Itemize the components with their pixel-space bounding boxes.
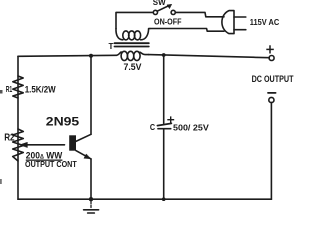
node junction (capacitor bottom) [162, 197, 166, 201]
wire switch to plug (top) [175, 12, 224, 16]
output terminal + (circle) [269, 56, 274, 61]
scan speck left edge lower [0, 179, 2, 184]
capacitor + polarity sign [167, 116, 174, 123]
transformer T secondary winding (7.5V) [117, 51, 149, 60]
scan speck left edge [0, 90, 3, 94]
node junction (emitter / ground) [89, 197, 93, 201]
output + polarity sign [266, 45, 274, 53]
svg-text:T: T [109, 42, 114, 51]
wire bottom rail [18, 198, 271, 200]
svg-text:115V AC: 115V AC [250, 17, 279, 27]
svg-text:DC OUTPUT: DC OUTPUT [252, 74, 294, 84]
minus sign above - terminal [268, 92, 276, 94]
underline under 200 ohm WW [26, 160, 63, 161]
transformer T primary winding [116, 29, 150, 40]
node junction (collector riser tap) [89, 54, 93, 58]
wire primary-left riser to switch [116, 12, 153, 28]
wire transformer primary-right to plug (bottom) [150, 29, 224, 32]
node junction (capacitor tap) [162, 53, 166, 57]
switch SW [153, 4, 175, 14]
transformer T core [115, 43, 149, 46]
transistor Q1 emitter lead with arrow [76, 151, 91, 159]
svg-text:1.5K/2W: 1.5K/2W [25, 84, 56, 95]
potentiometer R2 wiper arrow [20, 142, 65, 147]
svg-text:2N95: 2N95 [46, 114, 80, 128]
potentiometer R2 [13, 129, 24, 161]
svg-text:ON-OFF: ON-OFF [154, 18, 182, 27]
wire left rail [17, 56, 19, 199]
svg-text:R1: R1 [6, 85, 13, 94]
wire - terminal to bottom rail [270, 103, 272, 200]
resistor R1 [13, 76, 23, 98]
plug P1 (115V AC wall plug) [222, 11, 246, 34]
wire secondary-right to + output terminal [149, 55, 270, 58]
ground symbol [84, 202, 99, 214]
svg-text:SW: SW [153, 0, 166, 7]
svg-text:500/ 25V: 500/ 25V [173, 122, 209, 132]
capacitor C plates [157, 123, 171, 128]
wire emitter to bottom rail [90, 159, 92, 199]
wire collector riser [90, 56, 92, 135]
transistor Q1 2N95 base bar [69, 135, 76, 150]
svg-text:200Δ WW: 200Δ WW [26, 150, 63, 161]
wire capacitor to bottom rail [163, 129, 165, 199]
transistor Q1 collector lead [76, 134, 91, 141]
svg-text:7.5V: 7.5V [124, 62, 142, 72]
wire capacitor drop [163, 55, 165, 123]
svg-text:OUTPUT CONT: OUTPUT CONT [25, 160, 77, 169]
wire secondary-left to left rail [18, 55, 117, 56]
svg-text:R2: R2 [4, 133, 15, 144]
output terminal - (circle) [269, 97, 274, 102]
svg-text:C: C [150, 122, 155, 132]
